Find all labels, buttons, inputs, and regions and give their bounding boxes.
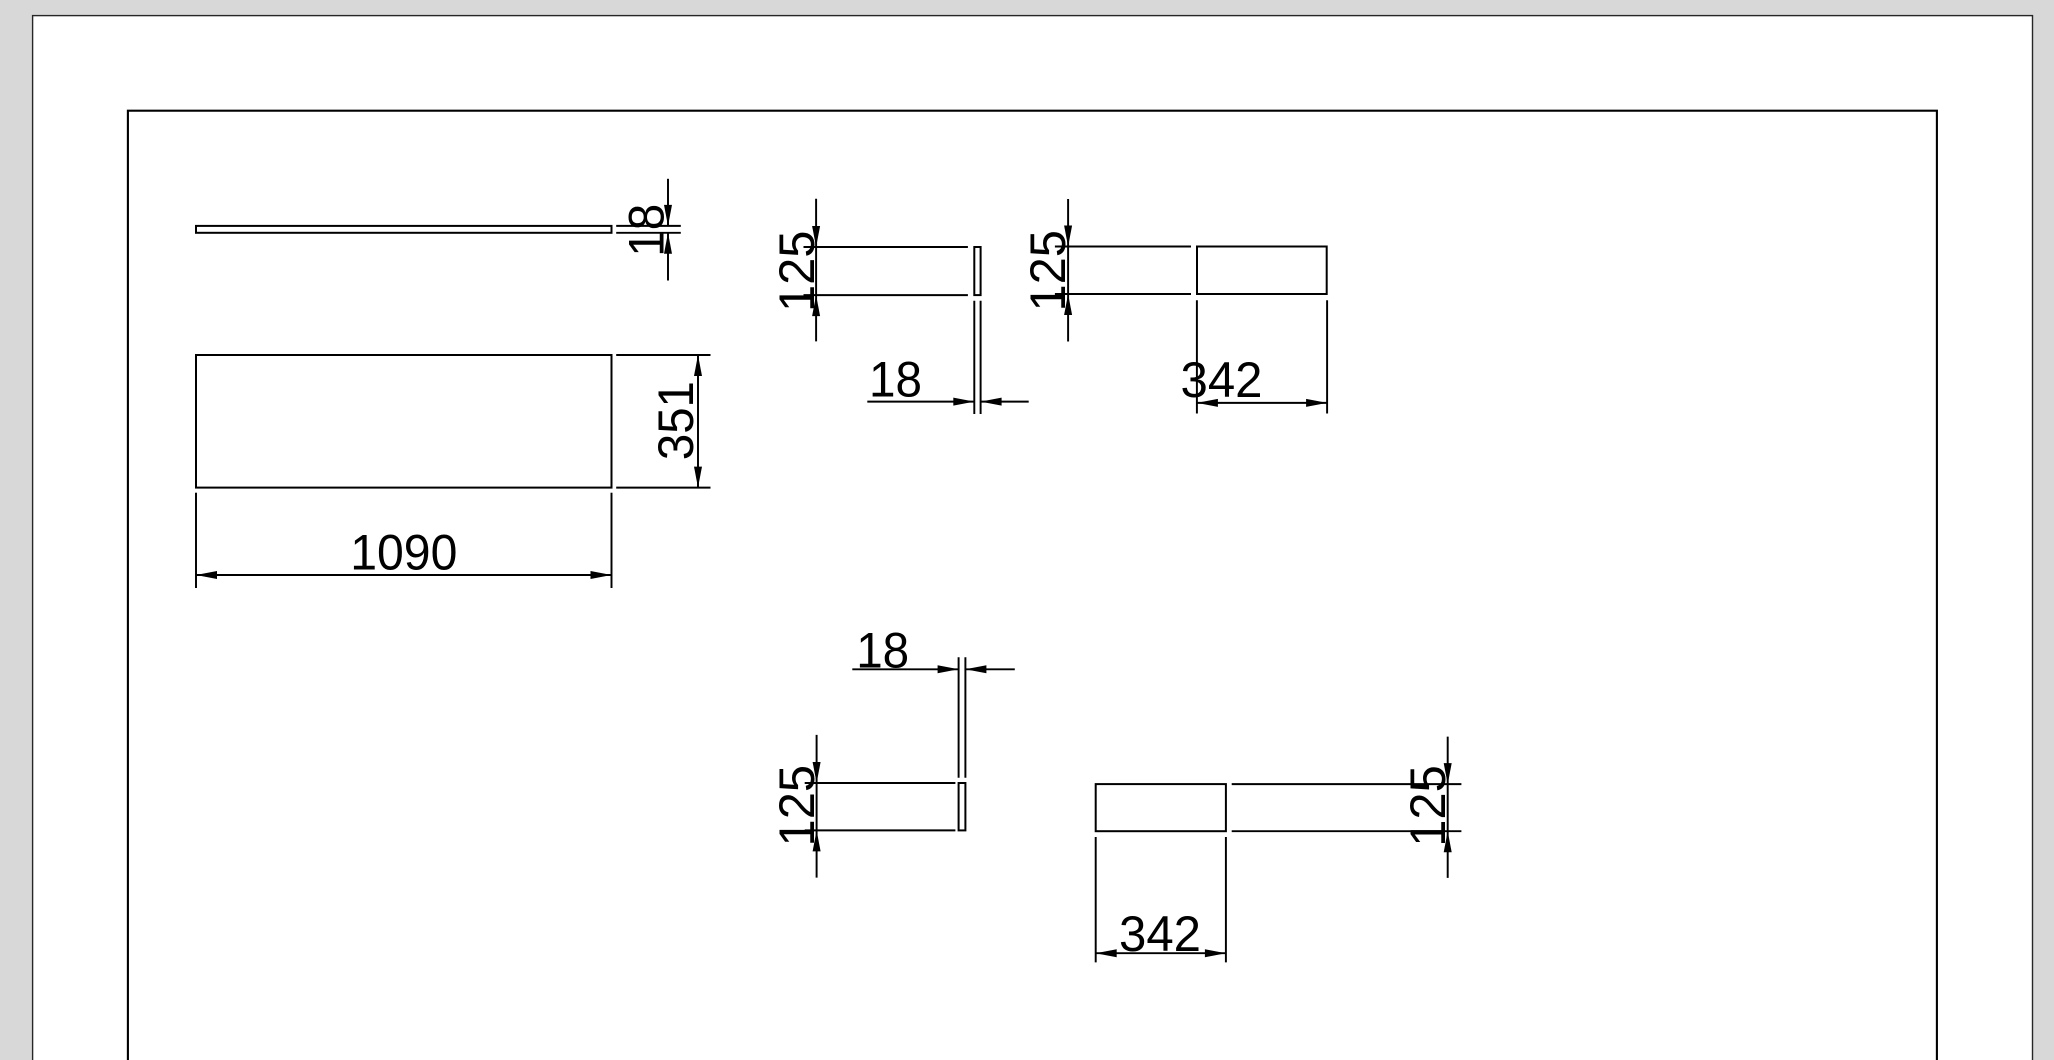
- arrowheads dim 342 (panel C): [1197, 399, 1327, 407]
- dimension line 125 (panel D): [816, 735, 818, 878]
- svg-text:125: 125: [1020, 230, 1076, 312]
- extension lines for dim 1090: [196, 493, 612, 588]
- extension lines for dim 18 (panel D): [959, 657, 966, 777]
- extension lines for dim 125 (panel C): [1055, 247, 1191, 295]
- dimension line 18 (panel A): [667, 179, 669, 281]
- svg-text:125: 125: [1400, 765, 1456, 847]
- extension lines for dim 125 (panel E): [1232, 784, 1462, 831]
- panel E front view 342x125 (bottom right): [1096, 784, 1226, 831]
- dimension line 351: [697, 355, 699, 488]
- svg-text:342: 342: [1181, 352, 1263, 408]
- arrowheads dim 125 (panel D): [813, 762, 821, 851]
- drawing frame border: [128, 111, 1937, 1060]
- dimension line 342 (panel C): [1197, 402, 1327, 404]
- panel C front view 342x125 (top right): [1197, 247, 1327, 295]
- extension lines for dim 342 (panel C): [1197, 300, 1327, 413]
- dimension line 342 (panel E): [1096, 952, 1226, 954]
- svg-text:125: 125: [769, 765, 825, 847]
- dimension line 18 (panel D): [852, 668, 1015, 670]
- dimension line 125 (panel E): [1447, 737, 1449, 878]
- dimension line 1090: [196, 574, 612, 576]
- svg-text:18: 18: [856, 623, 909, 679]
- panel A top view 1090x18: [196, 226, 612, 233]
- extension lines for dim 18 (panel A): [616, 226, 681, 233]
- extension lines for dim 125 (panel B): [804, 247, 968, 295]
- arrowheads dim 18 (panel D): [938, 665, 987, 673]
- extension lines for dim 18 (panel B): [974, 301, 980, 414]
- arrowheads dim 1090: [196, 571, 612, 579]
- arrowheads dim 18 (panel A): [664, 205, 672, 254]
- dimension line 125 (panel C): [1067, 199, 1069, 342]
- dimension line 125 (panel B): [815, 199, 817, 342]
- arrowheads dim 351: [694, 355, 702, 488]
- arrowheads dim 125 (panel B): [812, 226, 820, 316]
- panel D side view 18x125 (bottom middle): [959, 783, 966, 830]
- dimension line 18 (panel B): [867, 401, 1028, 403]
- svg-text:351: 351: [648, 381, 704, 460]
- svg-text:18: 18: [619, 204, 675, 257]
- svg-text:125: 125: [769, 231, 825, 313]
- extension lines for dim 342 (panel E): [1096, 837, 1226, 962]
- panel B side view 18x125 (top middle): [974, 247, 980, 295]
- arrowheads dim 125 (panel C): [1064, 226, 1072, 316]
- svg-text:342: 342: [1119, 906, 1201, 962]
- extension lines for dim 351: [616, 355, 710, 488]
- arrowheads dim 342 (panel E): [1096, 949, 1226, 957]
- extension lines for dim 125 (panel D): [805, 783, 956, 830]
- arrowheads dim 125 (panel E): [1444, 763, 1452, 852]
- svg-text:18: 18: [869, 352, 922, 408]
- svg-text:1090: 1090: [350, 524, 457, 580]
- arrowheads dim 18 (panel B): [953, 398, 1001, 406]
- panel A front view 1090x351: [196, 355, 612, 488]
